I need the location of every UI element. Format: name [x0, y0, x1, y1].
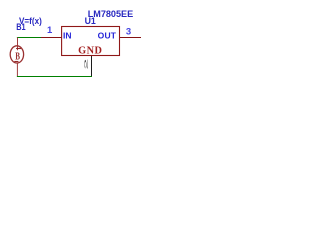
pin 1 stub (IN) of U1 — [41, 37, 62, 39]
battery B1 minus mark — [14, 61, 18, 63]
svg-text:3: 3 — [126, 26, 131, 37]
svg-text:B1: B1 — [16, 22, 25, 32]
battery B1 ellipse symbol — [10, 46, 23, 63]
svg-text:IN: IN — [63, 31, 72, 41]
svg-text:2: 2 — [83, 59, 88, 70]
battery B1 top pin stub — [17, 38, 19, 51]
svg-text:OUT: OUT — [98, 31, 117, 41]
wire: ground net (green) along bottom — [17, 76, 92, 78]
pin 3 stub (OUT) of U1 — [120, 37, 142, 39]
svg-text:1: 1 — [47, 25, 53, 36]
regulator U1 body box — [62, 27, 120, 56]
svg-text:GND: GND — [78, 45, 102, 56]
battery B1 plus mark — [16, 48, 21, 50]
wire: input net (green) from battery top stub to U1 pin 1 stub — [17, 37, 41, 39]
wire: GND vertical (black) from U1 pin 2 to bottom net — [91, 56, 93, 77]
battery B1 bottom pin stub — [16, 63, 18, 77]
svg-text:U1: U1 — [85, 16, 97, 27]
svg-text:B: B — [15, 50, 20, 62]
